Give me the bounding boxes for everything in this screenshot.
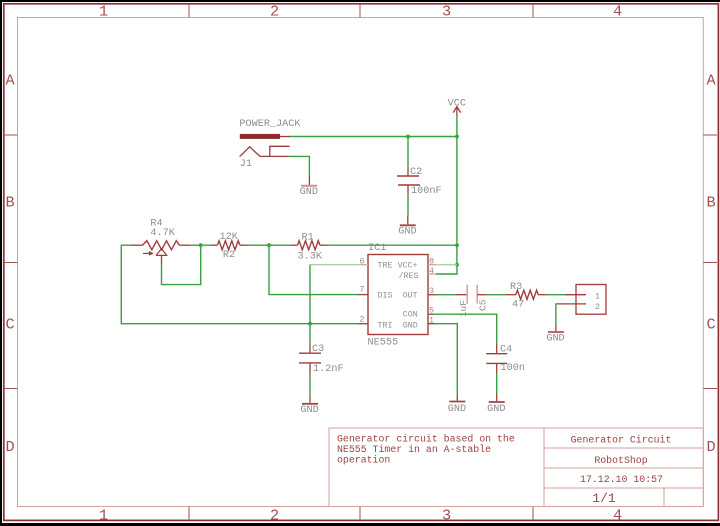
svg-text:A: A xyxy=(706,71,716,89)
svg-text:Generator Circuit: Generator Circuit xyxy=(571,434,672,445)
ground symbol under pin1 xyxy=(449,401,465,403)
svg-text:operation: operation xyxy=(337,454,390,465)
svg-text:5: 5 xyxy=(429,306,434,315)
svg-text:2: 2 xyxy=(360,315,365,324)
svg-text:1/1: 1/1 xyxy=(592,491,616,506)
wire C3 to GND xyxy=(309,374,311,398)
svg-text:C: C xyxy=(6,316,15,334)
frame tick left A|B xyxy=(4,134,18,136)
svg-text:3: 3 xyxy=(442,3,451,21)
frame tick left C|D xyxy=(4,388,18,390)
svg-text:A: A xyxy=(6,71,16,89)
ground pin lead under pin1 xyxy=(456,395,458,401)
wire R2 to R1 xyxy=(249,244,289,246)
svg-text:1: 1 xyxy=(99,3,108,21)
pin 4 /RES lead (pale) xyxy=(428,273,436,275)
op-amp IC1 NE555 box xyxy=(368,255,428,335)
ground pin lead under J1 xyxy=(308,176,310,185)
node junction R4 R2 xyxy=(199,243,203,247)
title block description text xyxy=(337,433,515,465)
svg-text:4: 4 xyxy=(613,507,622,525)
frame tick top 1|2 xyxy=(188,4,190,18)
node junction J1/C2 rail xyxy=(406,135,410,139)
wire left net R4 to TRI row xyxy=(121,245,358,324)
svg-text:J1: J1 xyxy=(240,159,252,170)
svg-text:C: C xyxy=(706,316,715,334)
wire R4 wiper loop xyxy=(162,245,201,284)
capacitor C4 xyxy=(486,343,507,373)
ground symbol under C3 xyxy=(302,403,318,405)
ground symbol under J1 xyxy=(301,185,317,187)
wire C4 to GND xyxy=(496,373,498,394)
wire C2 top xyxy=(407,137,409,168)
svg-text:3: 3 xyxy=(442,507,451,525)
svg-text:100n: 100n xyxy=(501,363,525,374)
frame black edge top xyxy=(0,0,720,2)
wire DIS net xyxy=(269,245,359,294)
svg-text:GND: GND xyxy=(487,404,505,415)
svg-text:3.3K: 3.3K xyxy=(298,251,323,262)
wire TRE net (pale) xyxy=(310,264,361,266)
svg-text:POWER_JACK: POWER_JACK xyxy=(239,119,301,130)
resistor R2 xyxy=(210,241,249,250)
pin 1 GND lead xyxy=(428,323,434,325)
svg-text:GND: GND xyxy=(403,321,418,330)
ground symbol under C2 xyxy=(400,224,416,226)
title block frame xyxy=(329,428,703,507)
node junction VCC R1 xyxy=(455,243,459,247)
svg-text:17.12.10 10:57: 17.12.10 10:57 xyxy=(580,474,663,485)
connector pin 1 lead xyxy=(565,294,586,296)
svg-text:100nF: 100nF xyxy=(411,186,442,197)
wire R1 to VCC vertical xyxy=(329,244,457,246)
wire J1 sleeve to GND xyxy=(289,156,309,176)
svg-text:R2: R2 xyxy=(223,250,235,261)
connector X1 box xyxy=(576,285,606,315)
power jack J1 xyxy=(240,134,290,157)
capacitor C2 xyxy=(397,167,420,194)
svg-text:RobotShop: RobotShop xyxy=(594,455,647,466)
svg-text:4: 4 xyxy=(429,267,434,276)
svg-text:12K: 12K xyxy=(220,232,239,243)
svg-text:D: D xyxy=(706,438,715,456)
svg-text:Generator circuit based on the: Generator circuit based on the xyxy=(337,433,515,444)
svg-text:1: 1 xyxy=(595,293,600,302)
wire connector pin2 to GND xyxy=(555,304,557,326)
svg-text:R3: R3 xyxy=(510,282,522,293)
svg-text:GND: GND xyxy=(300,405,318,416)
node junction R2 R1 DIS xyxy=(267,243,271,247)
node junction TRI net xyxy=(308,322,312,326)
frame tick top 3|4 xyxy=(532,4,534,18)
potentiometer R4 xyxy=(131,241,191,265)
wire R4 to R2 xyxy=(191,244,211,246)
svg-text:R1: R1 xyxy=(302,233,314,244)
svg-text:4: 4 xyxy=(613,3,622,21)
wire R3 to connector xyxy=(547,294,566,296)
svg-text:NE555 Timer in an A-stable: NE555 Timer in an A-stable xyxy=(337,444,491,455)
svg-text:2: 2 xyxy=(270,3,279,21)
svg-text:4.7K: 4.7K xyxy=(150,228,175,239)
svg-text:B: B xyxy=(6,193,15,211)
wire VCC top rail from J1 to C2 to VCC vertical xyxy=(290,136,458,138)
svg-text:NE555: NE555 xyxy=(368,337,399,348)
svg-text:OUT: OUT xyxy=(403,292,418,301)
frame tick left B|C xyxy=(4,262,18,264)
svg-text:C5: C5 xyxy=(478,299,489,311)
svg-text:C4: C4 xyxy=(500,344,512,355)
svg-text:2: 2 xyxy=(595,303,600,312)
svg-text:GND: GND xyxy=(300,187,318,198)
svg-text:GND: GND xyxy=(398,227,416,238)
wire GND net pin1 xyxy=(434,324,457,395)
ground symbol under connector xyxy=(548,331,564,333)
svg-text:B: B xyxy=(706,193,715,211)
svg-text:GND: GND xyxy=(448,404,466,415)
frame tick right B|C xyxy=(703,262,717,264)
svg-text:1.2nF: 1.2nF xyxy=(313,364,344,375)
wire pin4 to VCC xyxy=(436,265,457,274)
svg-text:IC1: IC1 xyxy=(368,243,386,254)
capacitor C5 xyxy=(456,285,485,304)
wire OUT to C5 xyxy=(436,294,456,296)
frame black edge left xyxy=(0,0,2,526)
connector pin 2 lead xyxy=(556,303,586,305)
svg-text:TRE: TRE xyxy=(378,262,393,271)
frame tick bottom 2|3 xyxy=(359,507,361,521)
ground symbol under C4 xyxy=(489,401,505,403)
svg-text:VCC: VCC xyxy=(448,98,466,109)
svg-text:C3: C3 xyxy=(312,344,324,355)
wire TRE vertical to TRI and C3 xyxy=(309,265,311,346)
svg-text:8: 8 xyxy=(429,257,434,266)
frame tick bottom 1|2 xyxy=(188,507,190,521)
pin 8 VCC+ lead (pale) xyxy=(428,264,436,266)
svg-text:DIS: DIS xyxy=(378,292,393,301)
pin 7 DIS lead xyxy=(359,294,369,296)
pin 5 CON lead xyxy=(428,313,434,315)
wire CON net pin5 to C4 xyxy=(434,314,497,343)
svg-text:CON: CON xyxy=(403,311,418,320)
svg-text:1: 1 xyxy=(99,507,108,525)
resistor R3 xyxy=(506,290,547,299)
svg-text:/RES: /RES xyxy=(399,271,419,281)
resistor R1 xyxy=(290,241,329,250)
wire VCC vertical drop xyxy=(456,116,458,265)
frame tick right A|B xyxy=(703,134,717,136)
svg-text:6: 6 xyxy=(360,257,365,266)
node junction VCC rail top xyxy=(455,135,459,139)
pin 3 OUT lead xyxy=(428,294,436,296)
pin 2 TRI lead xyxy=(359,323,369,325)
wire C5 to R3 xyxy=(485,294,506,296)
svg-text:1: 1 xyxy=(429,316,434,325)
svg-text:2: 2 xyxy=(270,507,279,525)
frame black edge bottom xyxy=(0,523,720,526)
ground pin lead under C3 xyxy=(309,398,311,403)
ground pin lead under connector xyxy=(555,326,557,331)
svg-text:VCC+: VCC+ xyxy=(398,262,418,271)
svg-text:7: 7 xyxy=(360,285,365,294)
wire C2 to GND xyxy=(407,194,409,215)
svg-text:C2: C2 xyxy=(410,167,422,178)
capacitor C3 xyxy=(299,346,321,374)
wire pin8 to VCC (pale) xyxy=(436,264,457,266)
node junction VCC pin8 xyxy=(455,263,459,267)
ground pin lead under C2 xyxy=(407,215,409,224)
frame tick right C|D xyxy=(703,388,717,390)
frame tick top 2|3 xyxy=(359,4,361,18)
VCC supply symbol xyxy=(453,107,461,117)
pin 6 TRE lead (pale) xyxy=(361,264,368,266)
ground pin lead under C4 xyxy=(496,394,498,402)
svg-text:3: 3 xyxy=(429,287,434,296)
svg-text:D: D xyxy=(6,438,15,456)
svg-text:47: 47 xyxy=(512,299,524,310)
frame tick bottom 3|4 xyxy=(532,507,534,521)
svg-text:GND: GND xyxy=(546,334,564,345)
svg-text:TRI: TRI xyxy=(378,321,393,330)
